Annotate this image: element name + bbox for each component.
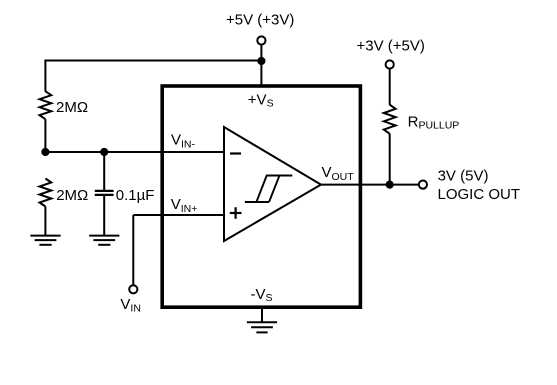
svg-text:2MΩ: 2MΩ <box>56 187 88 204</box>
svg-text:2MΩ: 2MΩ <box>56 99 88 116</box>
op-amp comparator triangle U1 <box>224 127 321 241</box>
supply terminal +3V <box>386 60 394 68</box>
capacitor C1 0.1µF <box>95 191 114 195</box>
wire R_PULLUP to output node <box>389 134 391 185</box>
svg-text:+VS: +VS <box>248 91 274 109</box>
svg-text:VIN-: VIN- <box>171 132 196 151</box>
wire V_IN vertical <box>132 215 134 285</box>
resistor R_PULLUP <box>384 105 396 134</box>
wire junction to box +VS pin <box>260 61 262 86</box>
ground under capacitor <box>89 236 119 245</box>
node junction above +VS <box>257 57 265 65</box>
svg-text:LOGIC OUT: LOGIC OUT <box>438 186 521 203</box>
svg-text:VIN: VIN <box>120 296 141 314</box>
ground under R2 <box>30 236 60 245</box>
wire R1 to divider node <box>44 119 46 152</box>
svg-text:+5V (+3V): +5V (+3V) <box>226 11 294 28</box>
comparator package box U1 <box>162 86 360 307</box>
inverting input minus sign <box>230 152 241 154</box>
wire V_IN+ input horizontal <box>133 214 224 216</box>
non-inverting input plus sign <box>230 207 242 219</box>
node output junction <box>386 181 394 189</box>
svg-text:3V (5V): 3V (5V) <box>438 168 489 185</box>
wire terminal to junction <box>260 45 262 61</box>
wire comparator output <box>321 184 419 186</box>
ground at -VS <box>247 322 277 332</box>
output terminal LOGIC OUT <box>419 181 427 189</box>
svg-text:-VS: -VS <box>251 286 273 304</box>
hysteresis symbol <box>245 176 292 203</box>
resistor R1 2MΩ top <box>40 91 52 119</box>
svg-text:0.1µF: 0.1µF <box>116 187 155 204</box>
wire capacitor to ground <box>103 196 105 236</box>
wire R2 to ground <box>44 207 46 236</box>
wire node to capacitor <box>103 152 105 190</box>
resistor R2 2MΩ bottom <box>40 179 52 207</box>
supply terminal +5V <box>257 36 265 44</box>
node divider junction <box>41 148 49 156</box>
wire divider top vertical <box>44 60 46 92</box>
node capacitor junction <box>100 148 108 156</box>
svg-text:RPULLUP: RPULLUP <box>408 113 460 131</box>
input terminal V_IN <box>129 285 137 293</box>
svg-text:VOUT: VOUT <box>322 164 355 183</box>
svg-text:VIN+: VIN+ <box>171 196 198 215</box>
wire -VS to ground <box>261 308 263 323</box>
wire top horizontal to divider <box>44 60 261 62</box>
wire divider node to comparator V_IN- <box>45 151 224 153</box>
wire terminal to R_PULLUP <box>389 69 391 105</box>
svg-text:+3V (+5V): +3V (+5V) <box>357 38 425 55</box>
